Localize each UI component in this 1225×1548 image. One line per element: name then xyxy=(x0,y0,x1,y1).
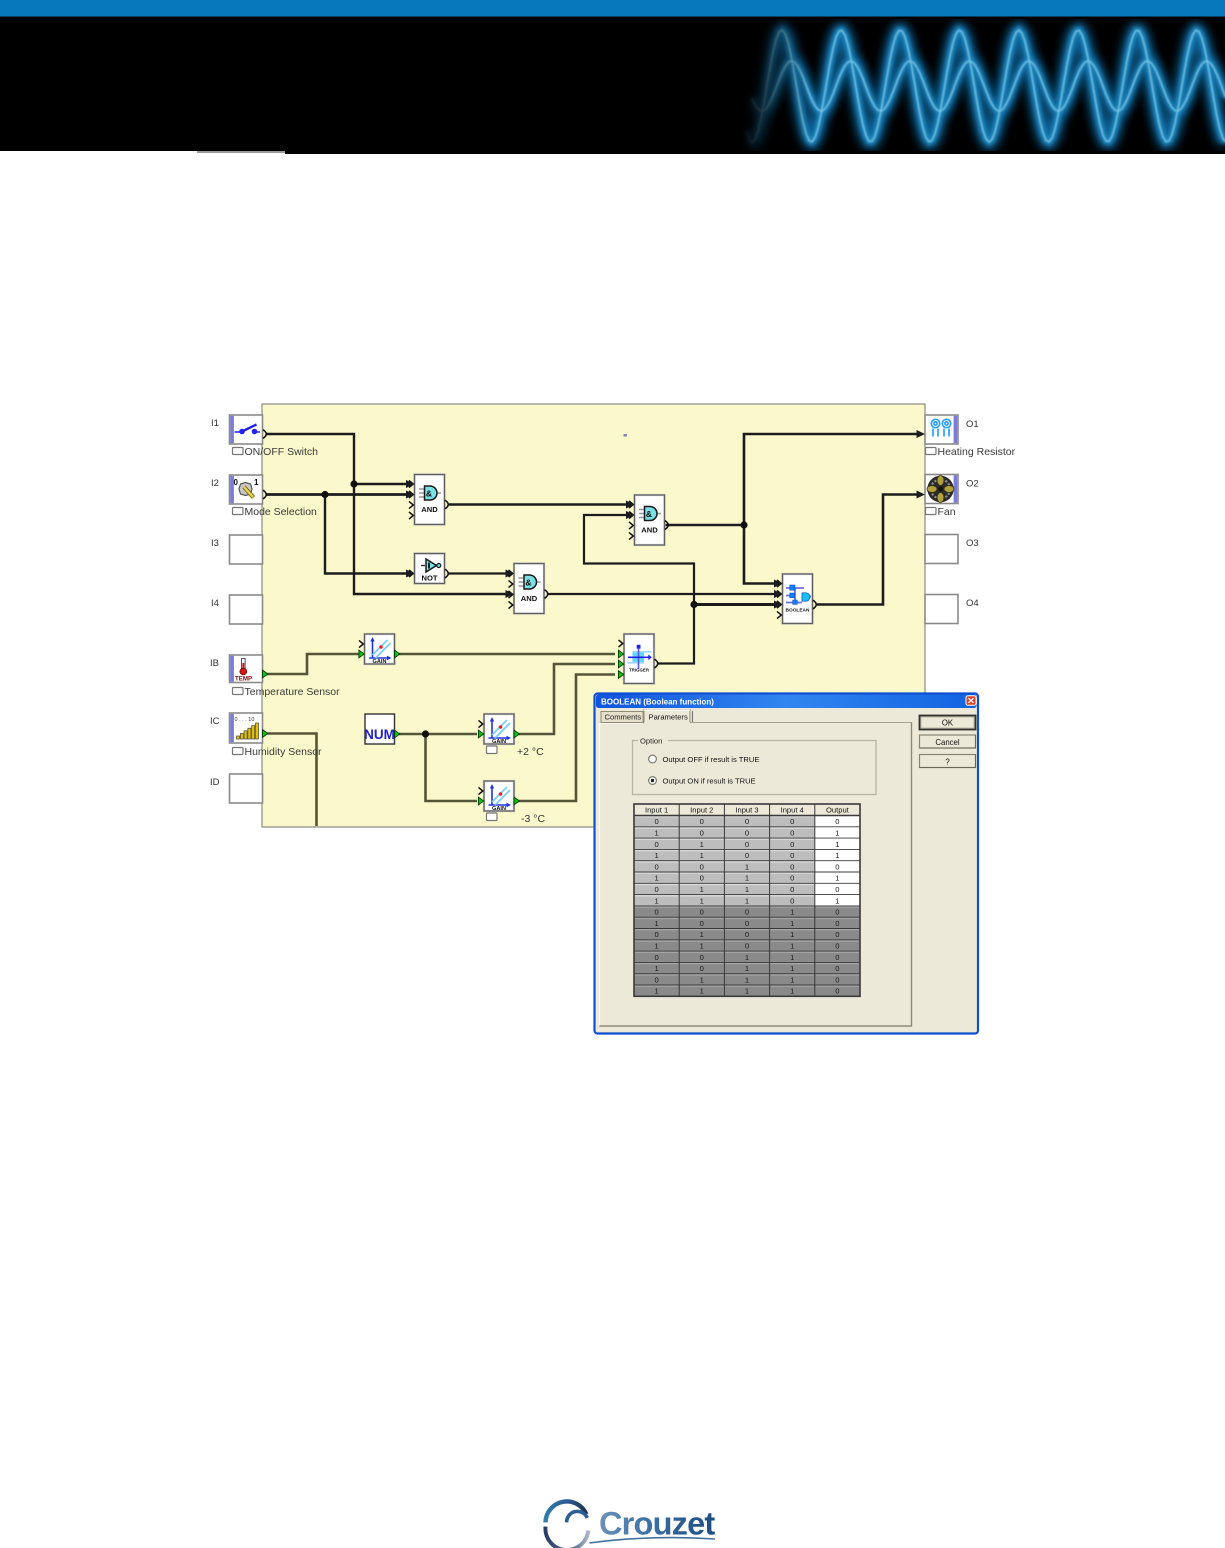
top blue bar xyxy=(0,0,1225,17)
svg-text:O2: O2 xyxy=(966,479,979,490)
svg-text:Temperature Sensor: Temperature Sensor xyxy=(245,686,341,698)
button Cancel xyxy=(920,735,976,748)
svg-text:1: 1 xyxy=(654,829,658,838)
close button xyxy=(966,696,976,706)
svg-text:0: 0 xyxy=(790,885,794,894)
svg-text:Humidity Sensor: Humidity Sensor xyxy=(245,746,323,758)
svg-text:Input 2: Input 2 xyxy=(690,806,713,815)
TRIGGER block B6 xyxy=(618,634,657,684)
svg-text:1: 1 xyxy=(700,975,704,984)
svg-text:1: 1 xyxy=(790,987,794,996)
svg-text:IC: IC xyxy=(210,716,220,727)
FBD canvas xyxy=(262,404,925,827)
svg-text:0: 0 xyxy=(700,908,704,917)
svg-text:Option: Option xyxy=(640,737,662,746)
svg-text:Heating Resistor: Heating Resistor xyxy=(938,446,1016,458)
wire GAIN3 out to TRIGGER in4 xyxy=(518,675,615,802)
wire NOT out to AND2 in1 xyxy=(449,572,506,574)
junction TRIGGER net at (694,604.5) xyxy=(690,601,697,608)
svg-text:1: 1 xyxy=(790,908,794,917)
svg-text:I4: I4 xyxy=(211,598,219,609)
svg-text:0: 0 xyxy=(835,919,839,928)
svg-text:0: 0 xyxy=(745,908,749,917)
radio Output OFF xyxy=(649,755,760,764)
wire NUM out to GAIN2 in xyxy=(399,733,477,736)
svg-text:0: 0 xyxy=(745,851,749,860)
svg-text:AND: AND xyxy=(521,594,538,603)
svg-text:TEMP: TEMP xyxy=(235,676,252,683)
output block O1 (Heating Resistor) xyxy=(917,415,979,444)
svg-text:0: 0 xyxy=(835,930,839,939)
svg-text:1: 1 xyxy=(835,896,839,905)
junction NUM net at (425.5,734) xyxy=(422,730,429,737)
wire AND1 out to AND3 in1 xyxy=(449,503,626,506)
wire GAIN2 out to TRIGGER in3 xyxy=(518,664,615,734)
svg-text:0: 0 xyxy=(654,840,658,849)
svg-text:1: 1 xyxy=(654,896,658,905)
AND gate B4 xyxy=(626,495,668,545)
svg-text:0: 0 xyxy=(790,862,794,871)
svg-text:1: 1 xyxy=(745,862,749,871)
svg-text:0: 0 xyxy=(654,817,658,826)
svg-text:1: 1 xyxy=(790,942,794,951)
svg-text:1: 1 xyxy=(654,964,658,973)
wire I2 branch to NOT in xyxy=(325,495,406,574)
black header band xyxy=(0,17,1225,152)
svg-text:0: 0 xyxy=(835,964,839,973)
svg-text:I2: I2 xyxy=(211,478,219,489)
svg-text:0: 0 xyxy=(700,817,704,826)
svg-text:0: 0 xyxy=(654,930,658,939)
wire TRIGGER out loop to AND3 in2 xyxy=(584,515,694,664)
svg-text:1: 1 xyxy=(835,829,839,838)
svg-text:O4: O4 xyxy=(966,598,979,609)
svg-text:Comments: Comments xyxy=(605,713,642,722)
input block I1 (ON/OFF Switch) xyxy=(211,415,266,444)
output block O2 (Fan) xyxy=(917,475,979,504)
svg-text:0 . . . 10: 0 . . . 10 xyxy=(235,717,255,723)
checkbox of GAIN B8 xyxy=(487,746,498,754)
svg-text:NUM: NUM xyxy=(364,727,395,742)
svg-text:O3: O3 xyxy=(966,538,979,549)
svg-text:1: 1 xyxy=(654,942,658,951)
label Mode Selection xyxy=(233,506,318,518)
svg-text:0: 0 xyxy=(745,840,749,849)
svg-text:0: 0 xyxy=(654,885,658,894)
svg-text:1: 1 xyxy=(654,874,658,883)
svg-text:1: 1 xyxy=(700,896,704,905)
input block I2 (Mode Selection) xyxy=(211,475,266,504)
svg-text:1: 1 xyxy=(835,851,839,860)
gray underline segment xyxy=(197,151,285,153)
svg-text:0: 0 xyxy=(234,478,239,487)
svg-text:1: 1 xyxy=(700,942,704,951)
input block ID (empty) xyxy=(210,774,263,803)
input block IB (Temperature Sensor) xyxy=(210,655,268,683)
svg-text:Output OFF if result is TRUE: Output OFF if result is TRUE xyxy=(663,755,760,764)
output block O4 (empty) xyxy=(925,595,979,624)
svg-text:Cancel: Cancel xyxy=(935,738,960,747)
wire AND3 out to O1 and BOOLEAN in1 xyxy=(664,434,917,584)
svg-text:NOT: NOT xyxy=(421,574,437,583)
svg-text:1: 1 xyxy=(745,953,749,962)
label Fan xyxy=(926,506,956,518)
svg-text:0: 0 xyxy=(745,829,749,838)
svg-text:0: 0 xyxy=(835,908,839,917)
svg-text:Output ON if result is TRUE: Output ON if result is TRUE xyxy=(663,777,756,786)
stray mark xyxy=(624,434,628,437)
svg-text:Fan: Fan xyxy=(938,506,956,518)
checkbox of GAIN B9 xyxy=(487,813,498,821)
wire AND2 out to BOOLEAN in2 xyxy=(548,593,774,595)
svg-text:0: 0 xyxy=(700,862,704,871)
svg-text:0: 0 xyxy=(700,919,704,928)
svg-text:0: 0 xyxy=(790,851,794,860)
svg-text:1: 1 xyxy=(790,964,794,973)
svg-text:Output: Output xyxy=(826,806,850,815)
wire I1 net: I1 out to AND2 in3 xyxy=(266,434,506,594)
truth table xyxy=(634,804,860,996)
svg-text:-3 °C: -3 °C xyxy=(521,813,545,825)
label ON/OFF Switch xyxy=(233,446,319,458)
svg-text:0: 0 xyxy=(700,964,704,973)
label Temperature Sensor xyxy=(233,686,341,698)
sine waves xyxy=(746,30,1225,142)
svg-text:0: 0 xyxy=(745,817,749,826)
svg-text:0: 0 xyxy=(745,930,749,939)
GAIN B8 xyxy=(478,714,519,745)
wire I1 branch to AND1 in1 xyxy=(354,483,406,486)
svg-text:Input 4: Input 4 xyxy=(781,806,804,815)
svg-text:0: 0 xyxy=(790,829,794,838)
svg-text:&: & xyxy=(426,489,432,499)
svg-text:1: 1 xyxy=(745,885,749,894)
Crouzet logo mark xyxy=(541,1501,588,1548)
svg-text:0: 0 xyxy=(700,829,704,838)
label Humidity Sensor xyxy=(233,746,323,758)
svg-text:0: 0 xyxy=(654,862,658,871)
svg-text:0: 0 xyxy=(790,840,794,849)
svg-text:&: & xyxy=(525,578,531,588)
svg-text:1: 1 xyxy=(790,953,794,962)
output block O3 (empty) xyxy=(925,535,979,564)
tab Comments xyxy=(601,712,643,723)
svg-text:I3: I3 xyxy=(211,538,219,549)
svg-text:0: 0 xyxy=(654,975,658,984)
svg-text:1: 1 xyxy=(790,919,794,928)
svg-text:?: ? xyxy=(945,758,950,767)
svg-text:GAIN: GAIN xyxy=(492,739,506,745)
input block IC (Humidity Sensor) xyxy=(210,713,268,743)
svg-text:1: 1 xyxy=(745,874,749,883)
GAIN B5 xyxy=(359,634,400,665)
wire BOOLEAN out to O2 xyxy=(817,495,917,605)
svg-text:1: 1 xyxy=(700,885,704,894)
svg-text:AND: AND xyxy=(641,526,658,535)
svg-text:O1: O1 xyxy=(966,419,979,430)
svg-text:0: 0 xyxy=(700,953,704,962)
svg-text:Mode Selection: Mode Selection xyxy=(245,506,318,518)
svg-text:1: 1 xyxy=(745,896,749,905)
junction AND3 net at (744,525) xyxy=(740,521,747,528)
svg-text:1: 1 xyxy=(745,975,749,984)
BOOLEAN block B10 xyxy=(774,574,816,624)
svg-text:OK: OK xyxy=(942,719,954,728)
wire GAIN1 out to TRIGGER in2 xyxy=(399,653,615,656)
svg-text:0: 0 xyxy=(790,896,794,905)
svg-text:0: 0 xyxy=(835,885,839,894)
svg-text:0: 0 xyxy=(745,942,749,951)
svg-text:BOOLEAN (Boolean function): BOOLEAN (Boolean function) xyxy=(601,698,714,707)
NUM constant block B7 xyxy=(364,714,400,744)
NOT gate B2 xyxy=(406,554,448,584)
svg-text:TRIGGER: TRIGGER xyxy=(629,667,650,672)
svg-text:0: 0 xyxy=(835,942,839,951)
wire NUM branch to GAIN3 in xyxy=(426,734,478,801)
svg-text:0: 0 xyxy=(835,987,839,996)
junction I1 net at (354,484) xyxy=(350,480,357,487)
Crouzet logo text xyxy=(590,1506,716,1544)
svg-text:0: 0 xyxy=(835,862,839,871)
wire IB out to GAIN1 in xyxy=(266,654,361,674)
svg-text:Crouzet: Crouzet xyxy=(599,1506,715,1542)
svg-text:0: 0 xyxy=(745,919,749,928)
svg-text:&: & xyxy=(646,509,652,519)
GAIN B9 xyxy=(478,781,519,812)
svg-text:ID: ID xyxy=(210,777,220,788)
svg-text:1: 1 xyxy=(745,964,749,973)
tab panel xyxy=(600,723,912,1027)
button ? xyxy=(920,755,976,768)
svg-text:0: 0 xyxy=(790,874,794,883)
svg-text:1: 1 xyxy=(654,987,658,996)
tab Parameters (active) xyxy=(644,710,693,724)
svg-text:0: 0 xyxy=(654,953,658,962)
svg-text:0: 0 xyxy=(835,953,839,962)
svg-text:ON/OFF Switch: ON/OFF Switch xyxy=(245,446,319,458)
junction I2 net at (325,494.5) xyxy=(321,491,328,498)
svg-text:0: 0 xyxy=(790,817,794,826)
AND gate B1 xyxy=(406,475,448,525)
group box Option xyxy=(633,736,877,795)
svg-text:1: 1 xyxy=(700,930,704,939)
svg-text:1: 1 xyxy=(835,840,839,849)
AND gate B3 xyxy=(506,564,548,614)
svg-text:GAIN: GAIN xyxy=(373,659,387,665)
svg-text:+2 °C: +2 °C xyxy=(517,746,544,758)
svg-text:1: 1 xyxy=(790,975,794,984)
svg-text:1: 1 xyxy=(654,851,658,860)
dialog window BOOLEAN (Boolean function) xyxy=(595,694,979,1034)
svg-text:IB: IB xyxy=(210,658,219,669)
svg-text:Input 1: Input 1 xyxy=(645,806,668,815)
svg-text:0: 0 xyxy=(835,975,839,984)
wire TRIGGER net to BOOLEAN in3 xyxy=(694,603,774,606)
svg-text:0: 0 xyxy=(654,908,658,917)
wire IC out down to canvas edge xyxy=(266,734,317,827)
wire I2 out to AND1 in2 xyxy=(266,493,406,496)
svg-text:1: 1 xyxy=(700,840,704,849)
svg-text:Parameters: Parameters xyxy=(649,713,688,722)
input block I4 (empty) xyxy=(211,595,263,624)
svg-text:1: 1 xyxy=(835,874,839,883)
button OK xyxy=(920,716,976,730)
svg-text:1: 1 xyxy=(745,987,749,996)
svg-text:Input 3: Input 3 xyxy=(735,806,758,815)
svg-text:0: 0 xyxy=(835,817,839,826)
svg-text:AND: AND xyxy=(421,505,438,514)
label Heating Resistor xyxy=(926,446,1016,458)
svg-text:1: 1 xyxy=(700,987,704,996)
svg-text:BOOLEAN: BOOLEAN xyxy=(786,608,811,614)
svg-text:I1: I1 xyxy=(211,418,219,429)
svg-text:1: 1 xyxy=(790,930,794,939)
svg-text:0: 0 xyxy=(700,874,704,883)
radio Output ON (selected) xyxy=(649,777,756,786)
svg-text:1: 1 xyxy=(654,919,658,928)
svg-text:1: 1 xyxy=(254,478,259,487)
svg-text:GAIN: GAIN xyxy=(492,806,506,812)
input block I3 (empty) xyxy=(211,535,263,564)
svg-text:1: 1 xyxy=(700,851,704,860)
